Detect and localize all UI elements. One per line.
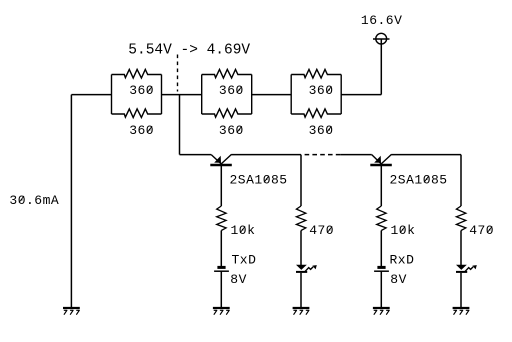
wire [300,273,302,308]
svg-text:8V: 8V [230,272,247,287]
wire [179,95,181,155]
svg-text:16.6V: 16.6V [361,13,403,28]
svg-text:360: 360 [129,83,154,98]
wire [162,94,202,96]
wire [300,231,302,266]
wire [71,94,111,96]
LED D2 [456,265,477,273]
wire Q2 base down [380,165,382,206]
wire branch B down [300,155,302,206]
wire [252,94,292,96]
svg-text:10k: 10k [231,223,256,238]
wire [380,231,382,267]
wire [340,154,372,156]
battery B2 8V (RxD source) [374,266,389,271]
wire [460,231,462,266]
wire [341,94,381,96]
power supply symbol [373,33,390,44]
resistor R 470 (branch D) [456,206,465,231]
wire from supply down to resistor chain [380,39,382,95]
wire Q1 base down [220,165,222,206]
wire [460,273,462,308]
ground (branch D) [453,308,470,314]
svg-text:2SA1085: 2SA1085 [230,173,288,188]
wire [220,271,222,308]
ground (left rail) [63,308,80,314]
wire [380,271,382,308]
wire left rail down [70,95,72,308]
resistor R 10k (branch A) [217,206,226,231]
resistor R 470 (branch B) [296,206,305,231]
resistor pair block 2 (360/360) [202,69,252,117]
LED D1 [296,265,317,273]
transistor Q1 2SA1085 (PNP) [210,154,232,165]
node marker dashed line [177,55,179,92]
svg-text:5.54V -> 4.69V: 5.54V -> 4.69V [128,43,250,59]
battery B1 8V (TxD source) [214,266,229,271]
svg-text:RxD: RxD [390,252,415,267]
svg-text:2SA1085: 2SA1085 [390,173,448,188]
wire [220,231,222,267]
wire [391,154,461,156]
svg-text:360: 360 [219,83,244,98]
svg-text:10k: 10k [391,223,416,238]
svg-text:360: 360 [309,123,334,138]
resistor pair block 3 (360/360) [291,69,341,117]
svg-text:360: 360 [309,83,334,98]
resistor pair block 1 (360/360) [112,69,162,117]
ground (branch B) [293,308,310,314]
svg-text:470: 470 [309,223,334,238]
svg-text:470: 470 [469,223,494,238]
wire branch D down [460,155,462,206]
wire (dashed continuation) [305,154,341,156]
wire [231,154,301,156]
svg-text:360: 360 [129,123,154,138]
svg-text:30.6mA: 30.6mA [9,193,59,208]
ground (branch A) [213,308,230,314]
wire [180,154,212,156]
ground (branch C) [373,308,390,314]
svg-text:8V: 8V [390,272,407,287]
svg-text:TxD: TxD [232,252,257,267]
resistor R 10k (branch C) [377,206,386,231]
transistor Q2 2SA1085 (PNP) [370,154,392,165]
svg-text:360: 360 [219,123,244,138]
